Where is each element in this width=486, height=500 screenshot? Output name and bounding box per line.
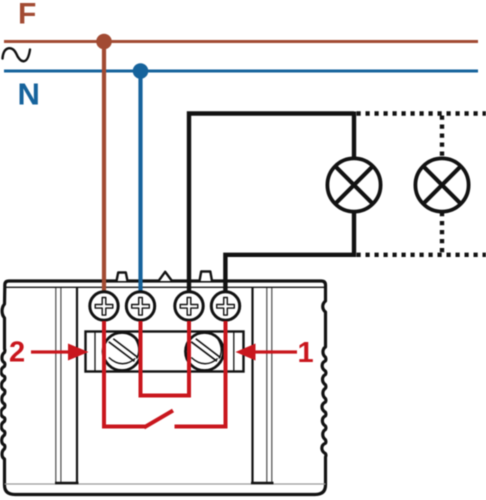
svg-text:2: 2 (9, 337, 25, 369)
inner wall right (251, 288, 253, 483)
inner groove right (double line) (266, 288, 268, 483)
terminal screw 4 (switched phase out) (211, 292, 239, 320)
device inner top line (5, 286, 326, 288)
mounting tab centre (triangle) (159, 272, 173, 281)
terminal screw 3 (lamp neutral out) (175, 292, 203, 320)
wire lamp L1 top lead (352, 112, 356, 160)
node on F line (96, 34, 112, 50)
neutral line N (4, 70, 478, 73)
device inner bottom line (5, 483, 326, 485)
wire brown phase drop (102, 42, 106, 301)
node on N line (133, 63, 149, 79)
arrow 2 (left) (31, 344, 89, 361)
wire lamp L1 return (225, 211, 354, 300)
terminal screw 2 (neutral in) (126, 292, 154, 320)
dotted lamp L2 bottom lead (440, 212, 444, 253)
dotted lamp L2 top lead (440, 116, 444, 160)
phase line F (4, 40, 478, 43)
device enclosure outline (1, 281, 326, 495)
svg-text:N: N (18, 77, 40, 112)
groove bottom cap left (55, 482, 79, 485)
AC source symbol (3, 48, 31, 61)
red wire switch to terminal4 (175, 321, 226, 427)
clamp screw 2 (left) (103, 333, 141, 371)
terminal block (86, 332, 244, 372)
switch blade (144, 411, 173, 428)
inner groove left (double line) (55, 288, 57, 483)
wire blue neutral drop (138, 71, 142, 300)
arrow 1 (right) (236, 344, 298, 361)
dotted extension wire bottom (357, 253, 486, 257)
red wire terminal1 to switch (104, 321, 145, 427)
dotted extension wire top (357, 111, 486, 115)
lamp L2 (415, 158, 468, 211)
svg-text:F: F (18, 0, 36, 31)
lamp L1 (327, 158, 380, 211)
red bridge terminal2 to terminal3 (141, 321, 190, 396)
inner wall left (76, 288, 78, 483)
svg-text:1: 1 (298, 337, 314, 369)
mounting tab right (200, 272, 213, 282)
terminal screw 1 (phase in) (90, 292, 118, 320)
wire black switched-phase feed (189, 114, 354, 301)
groove bottom cap right (251, 482, 274, 485)
mounting tab left (117, 273, 128, 282)
clamp screw 1 (right) (186, 333, 224, 371)
